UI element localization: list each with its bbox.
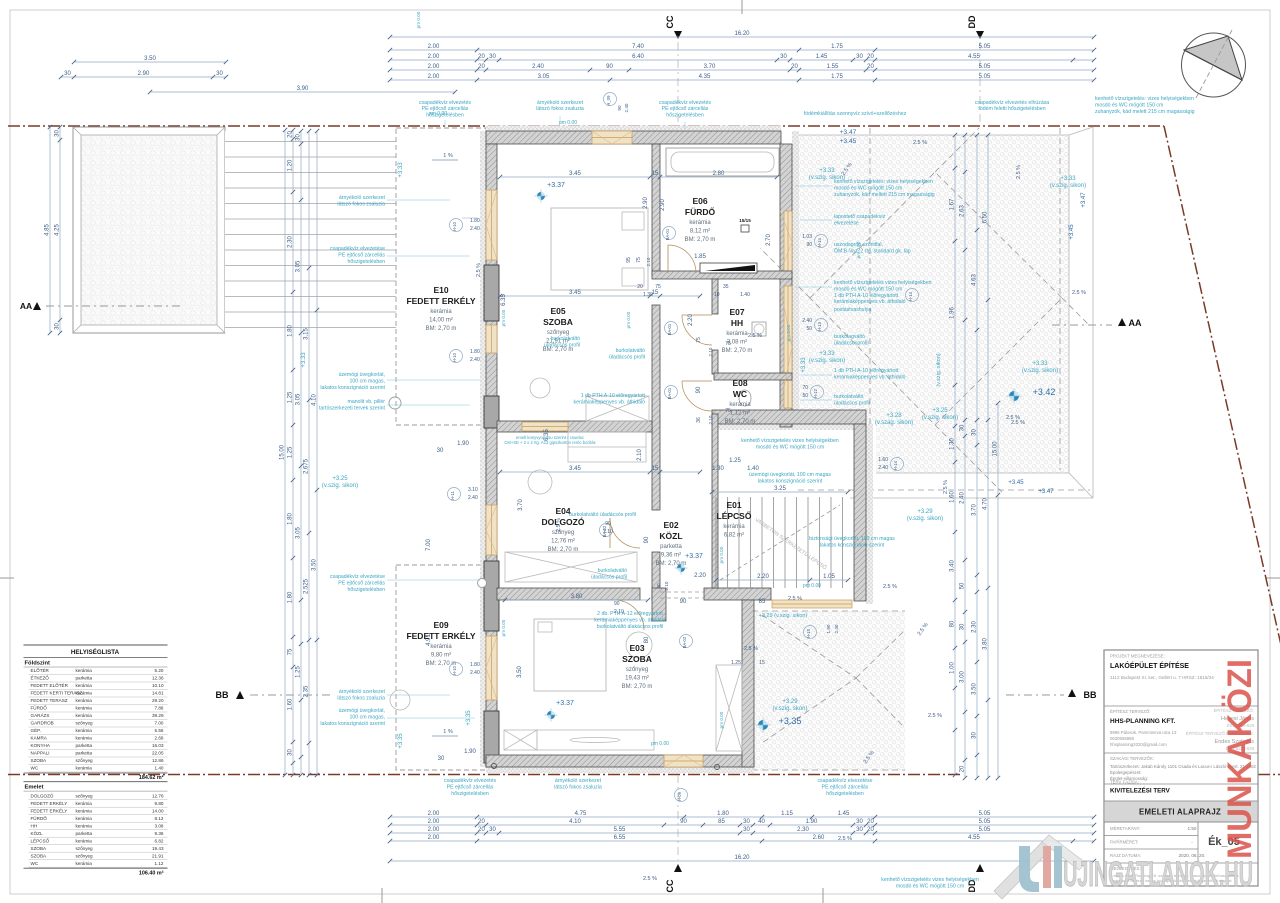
roof parapet outline bbox=[799, 127, 1093, 498]
svg-text:12.76: 12.76 bbox=[152, 793, 164, 798]
bottom exterior wall E03 bbox=[486, 755, 754, 767]
svg-text:2.20: 2.20 bbox=[688, 314, 694, 326]
svg-text:Földszint: Földszint bbox=[25, 661, 51, 667]
svg-text:6.35: 6.35 bbox=[501, 294, 507, 306]
interior dimension rows bbox=[498, 171, 779, 179]
svg-text:8996 Pálosok, Pammineva utca 1: 8996 Pálosok, Pammineva utca 13 bbox=[1110, 730, 1177, 735]
svg-text:kenhető vízszigetelés vizes he: kenhető vízszigetelés vizes helyiségekbe… bbox=[834, 280, 932, 286]
svg-text:FEDETT ELŐTÉR: FEDETT ELŐTÉR bbox=[31, 682, 69, 688]
svg-text:2.00: 2.00 bbox=[428, 819, 440, 825]
svg-text:SZOBA: SZOBA bbox=[31, 846, 48, 851]
svg-text:MUNKAKÖZI: MUNKAKÖZI bbox=[1221, 659, 1259, 859]
stairs treads E01 bbox=[716, 497, 843, 588]
left vertical dimension chain bbox=[280, 128, 288, 777]
svg-text:kerámia: kerámia bbox=[723, 524, 745, 530]
svg-text:5.55: 5.55 bbox=[614, 827, 626, 833]
svg-text:üladácsos profil: üladácsos profil bbox=[834, 401, 870, 407]
svg-text:2.10: 2.10 bbox=[708, 347, 713, 356]
svg-text:(v.szig. sikon): (v.szig. sikon) bbox=[936, 353, 942, 386]
svg-text:15.00: 15.00 bbox=[993, 441, 999, 457]
svg-text:BA-01: BA-01 bbox=[667, 387, 672, 399]
svg-text:KÖZL: KÖZL bbox=[659, 531, 682, 541]
svg-text:FEDETT TERASZ: FEDETT TERASZ bbox=[31, 698, 68, 703]
svg-text:FEDETT ERKÉLY: FEDETT ERKÉLY bbox=[31, 807, 68, 813]
svg-text:6.55: 6.55 bbox=[614, 835, 626, 841]
pier left wall low bbox=[484, 711, 499, 763]
page edge tick top bbox=[741, 0, 743, 14]
svg-text:106.40 m²: 106.40 m² bbox=[139, 870, 164, 876]
svg-text:20: 20 bbox=[288, 131, 294, 138]
svg-text:1.80: 1.80 bbox=[470, 662, 480, 668]
bed E03 bbox=[534, 619, 606, 691]
svg-text:csapadékvíz elvezetés elhúzása: csapadékvíz elvezetés elhúzása bbox=[975, 100, 1050, 106]
svg-text:1.03: 1.03 bbox=[802, 234, 812, 240]
svg-text:UJINGATLANOK.HU: UJINGATLANOK.HU bbox=[1063, 855, 1253, 894]
svg-text:75: 75 bbox=[725, 408, 731, 414]
wardrobe E03 right bbox=[716, 665, 742, 751]
svg-text:15: 15 bbox=[652, 171, 659, 177]
svg-text:15: 15 bbox=[759, 660, 765, 666]
svg-text:PE ejtőcső zárcellás: PE ejtőcső zárcellás bbox=[447, 785, 494, 791]
svg-text:2.00: 2.00 bbox=[428, 44, 440, 50]
svg-text:mosdó és WC mögött 150 cm: mosdó és WC mögött 150 cm bbox=[834, 185, 902, 191]
svg-text:E06: E06 bbox=[692, 196, 707, 206]
property boundary top (red dash-dot) bbox=[8, 125, 1164, 127]
svg-text:3.10: 3.10 bbox=[468, 487, 478, 493]
top dims row 3 bbox=[388, 54, 1096, 62]
svg-text:5.05: 5.05 bbox=[979, 74, 991, 80]
svg-text:mosdó és WC mögött 150 cm: mosdó és WC mögött 150 cm bbox=[896, 884, 964, 890]
svg-text:ÖM:B-Vaz, 2 rtg. standard gk.: ÖM:B-Vaz, 2 rtg. standard gk. lap bbox=[834, 248, 911, 255]
svg-text:burkolatváltó álakácsos profil: burkolatváltó álakácsos profil bbox=[597, 624, 664, 630]
svg-text:80: 80 bbox=[950, 620, 956, 627]
svg-text:WC: WC bbox=[733, 389, 747, 399]
room E03 SZOBA bbox=[622, 643, 653, 690]
svg-text:csapadékvíz elvezetés: csapadékvíz elvezetés bbox=[419, 100, 472, 106]
page edge tick right bbox=[1266, 577, 1280, 579]
svg-text:BM: 2,70 m: BM: 2,70 m bbox=[622, 684, 653, 690]
svg-text:kerámiaképpenyes vb. áthidaló: kerámiaképpenyes vb. áthidaló bbox=[834, 299, 906, 305]
property boundary bottom bbox=[8, 774, 960, 776]
top-left dims 3.50 bbox=[72, 56, 228, 64]
top-left dims 3.90 bbox=[148, 86, 457, 94]
svg-text:20: 20 bbox=[867, 54, 874, 60]
svg-text:BM: 2,70 m: BM: 2,70 m bbox=[548, 547, 579, 553]
svg-text:GARDROB: GARDROB bbox=[31, 721, 54, 726]
svg-text:EMELETI ALAPRAJZ: EMELETI ALAPRAJZ bbox=[1139, 808, 1221, 817]
svg-text:KAMRA: KAMRA bbox=[31, 736, 48, 741]
svg-text:PE ejtőcső zárcellás: PE ejtőcső zárcellás bbox=[338, 581, 385, 587]
svg-text:árnyékoló szerkezet: árnyékoló szerkezet bbox=[339, 689, 386, 695]
svg-text:40: 40 bbox=[758, 819, 765, 825]
svg-text:3.45: 3.45 bbox=[569, 290, 581, 296]
desk E04 bbox=[568, 432, 646, 462]
svg-text:2.30: 2.30 bbox=[797, 827, 809, 833]
right exterior wall upper bbox=[780, 144, 792, 427]
top-left dims 2.90 bbox=[59, 71, 228, 79]
svg-text:7.88: 7.88 bbox=[155, 706, 164, 711]
top dims total 16.20 bbox=[388, 31, 1096, 39]
svg-text:2.10: 2.10 bbox=[637, 449, 643, 461]
svg-text:H-14: H-14 bbox=[908, 291, 913, 301]
svg-text:2.5 %: 2.5 % bbox=[1006, 415, 1020, 421]
door E06 swing bbox=[668, 245, 696, 273]
svg-text:1.00: 1.00 bbox=[950, 662, 956, 674]
partition corridor lower bbox=[652, 552, 660, 601]
pillar circle bbox=[389, 397, 401, 409]
svg-text:kerámia: kerámia bbox=[76, 713, 93, 718]
svg-text:KÖZL: KÖZL bbox=[31, 830, 43, 836]
svg-text:2.5 %: 2.5 % bbox=[943, 480, 949, 494]
svg-text:WC: WC bbox=[31, 766, 39, 771]
svg-text:pm 0.00: pm 0.00 bbox=[501, 619, 506, 636]
svg-text:E08: E08 bbox=[732, 378, 747, 388]
svg-text:H-10: H-10 bbox=[452, 665, 457, 675]
svg-text:95: 95 bbox=[626, 257, 632, 263]
svg-text:H-14: H-14 bbox=[817, 237, 822, 247]
svg-text:szőnyeg: szőnyeg bbox=[76, 758, 94, 763]
svg-text:50: 50 bbox=[806, 326, 812, 332]
svg-text:zuhanyzók, kád mellett 215 cm: zuhanyzók, kád mellett 215 cm magasságig bbox=[834, 192, 935, 198]
svg-text:3.40: 3.40 bbox=[950, 560, 956, 572]
balcony E09 dashed outline bbox=[396, 565, 486, 770]
svg-text:parketta: parketta bbox=[660, 544, 682, 550]
svg-text:75: 75 bbox=[655, 284, 661, 290]
corridor right wall upper bbox=[712, 279, 718, 314]
svg-text:30: 30 bbox=[64, 71, 71, 77]
svg-text:FÜRDŐ: FÜRDŐ bbox=[31, 705, 48, 711]
svg-text:mosdó és WC mögött 150 cm: mosdó és WC mögött 150 cm bbox=[1095, 102, 1163, 108]
svg-text:E07: E07 bbox=[729, 307, 744, 317]
svg-text:SZOBA: SZOBA bbox=[622, 654, 652, 664]
svg-text:16.20: 16.20 bbox=[734, 31, 750, 37]
svg-text:Épületgépészet:: Épületgépészet: bbox=[1110, 770, 1142, 775]
room E10 FEDETT ERKÉLY bbox=[406, 285, 475, 332]
svg-text:LÉPCSŐ: LÉPCSŐ bbox=[31, 837, 50, 843]
svg-text:30: 30 bbox=[972, 732, 978, 739]
svg-text:6.40: 6.40 bbox=[632, 54, 644, 60]
svg-text:2.40: 2.40 bbox=[802, 318, 812, 324]
door E08 swing bbox=[682, 381, 712, 411]
svg-text:4.35: 4.35 bbox=[699, 74, 711, 80]
svg-text:burkolatváltó: burkolatváltó bbox=[598, 568, 628, 574]
room E09 FEDETT ERKÉLY bbox=[406, 620, 475, 667]
svg-text:kenhető vízszigetelés vizes he: kenhető vízszigetelés vizes helyiségekbe… bbox=[741, 438, 839, 444]
svg-text:2.40: 2.40 bbox=[624, 103, 629, 112]
svg-text:1.96: 1.96 bbox=[950, 307, 956, 319]
svg-text:árnyékoló szerkezet: árnyékoló szerkezet bbox=[537, 100, 584, 106]
svg-text:20: 20 bbox=[478, 54, 485, 60]
svg-text:4.10: 4.10 bbox=[569, 819, 581, 825]
svg-text:30: 30 bbox=[960, 623, 966, 630]
svg-text:lakatos konszignáció szerint: lakatos konszignáció szerint bbox=[320, 721, 385, 727]
svg-text:3.05: 3.05 bbox=[296, 527, 302, 539]
svg-text:HH: HH bbox=[31, 823, 38, 828]
svg-text:2.70: 2.70 bbox=[766, 234, 772, 246]
bottom dims total bbox=[388, 855, 1096, 863]
svg-text:pm 0.00: pm 0.00 bbox=[803, 583, 821, 589]
svg-text:30: 30 bbox=[437, 448, 444, 454]
svg-text:3.15: 3.15 bbox=[304, 328, 310, 340]
svg-text:1.60: 1.60 bbox=[878, 457, 888, 463]
svg-text:3.50: 3.50 bbox=[144, 56, 156, 62]
svg-text:üzemögi üvegkorlát, 100 cm mag: üzemögi üvegkorlát, 100 cm magas bbox=[749, 472, 831, 478]
window right wall E07/E08 bbox=[784, 286, 792, 408]
svg-text:10.10: 10.10 bbox=[152, 683, 164, 688]
svg-text:30: 30 bbox=[743, 819, 750, 825]
svg-text:látszó fokos zsaluzia: látszó fokos zsaluzia bbox=[536, 106, 584, 112]
svg-text:5.05: 5.05 bbox=[979, 811, 991, 817]
svg-text:2.5 %: 2.5 % bbox=[744, 646, 758, 652]
svg-text:ÉPÍTÉSZ TERVEZŐ:: ÉPÍTÉSZ TERVEZŐ: bbox=[1110, 709, 1150, 714]
svg-text:burkolatváltó: burkolatváltó bbox=[551, 336, 581, 342]
svg-text:üzemögi üvegkorlát,: üzemögi üvegkorlát, bbox=[339, 708, 385, 714]
svg-text:20: 20 bbox=[478, 819, 485, 825]
svg-text:80: 80 bbox=[644, 636, 650, 643]
window bottom wall bbox=[664, 755, 703, 767]
svg-text:H-12: H-12 bbox=[813, 388, 818, 398]
svg-text:BB: BB bbox=[216, 690, 229, 700]
svg-text:(v.szag. sikon): (v.szag. sikon) bbox=[875, 420, 913, 426]
svg-text:90: 90 bbox=[806, 242, 812, 248]
partition E05|E04 bbox=[497, 421, 652, 432]
svg-text:75: 75 bbox=[288, 648, 294, 655]
svg-text:CM+SE + 2 x 2 rtg. A13 gipszka: CM+SE + 2 x 2 rtg. A13 gipszkarton reréc… bbox=[504, 440, 595, 445]
svg-text:+3.47: +3.47 bbox=[840, 129, 857, 136]
svg-text:3.00: 3.00 bbox=[960, 671, 966, 683]
svg-text:BM: 2,70 m: BM: 2,70 m bbox=[722, 348, 753, 354]
svg-text:70: 70 bbox=[802, 385, 808, 391]
svg-text:1.90: 1.90 bbox=[826, 624, 831, 633]
svg-text:pm 0.00: pm 0.00 bbox=[786, 324, 791, 341]
svg-text:üzemögi üvegkorlát,: üzemögi üvegkorlát, bbox=[339, 372, 385, 378]
dresser E03 bbox=[537, 730, 654, 750]
svg-text:kerámia: kerámia bbox=[76, 683, 93, 688]
corridor right wall lower bbox=[712, 414, 718, 588]
svg-text:(v.szig. sikon): (v.szig. sikon) bbox=[907, 516, 943, 522]
svg-text:H-10: H-10 bbox=[452, 352, 457, 362]
level marks bbox=[547, 182, 565, 189]
stairs up arrow dashed bbox=[720, 505, 840, 580]
stairs right wall bbox=[854, 424, 866, 601]
svg-text:30: 30 bbox=[288, 749, 294, 756]
washbasin counter E06 bbox=[700, 263, 757, 273]
bottom dims row 2 bbox=[388, 819, 1096, 827]
top dims row 5 bbox=[388, 74, 1096, 82]
svg-text:2 db. PTH A-12 előregyártott: 2 db. PTH A-12 előregyártott bbox=[597, 611, 663, 617]
svg-text:kerámia: kerámia bbox=[76, 823, 93, 828]
svg-text:burkolatváltó: burkolatváltó bbox=[834, 394, 864, 400]
svg-text:E01: E01 bbox=[726, 500, 741, 510]
svg-text:+3.35: +3.35 bbox=[398, 733, 404, 749]
right vertical dimension chain bbox=[950, 133, 958, 777]
svg-text:pm 0.00: pm 0.00 bbox=[429, 111, 447, 117]
svg-text:3.50: 3.50 bbox=[972, 683, 978, 695]
svg-text:2.5 %: 2.5 % bbox=[1016, 165, 1022, 179]
svg-text:zuhanyzók, kád melett 215 cm m: zuhanyzók, kád melett 215 cm magasságig bbox=[1095, 109, 1195, 115]
svg-text:KONYHA: KONYHA bbox=[31, 743, 51, 748]
svg-text:39.29: 39.29 bbox=[152, 713, 164, 718]
svg-text:5.05: 5.05 bbox=[979, 819, 991, 825]
BB marker right bbox=[1006, 694, 1064, 696]
svg-text:9,36 m²: 9,36 m² bbox=[661, 553, 681, 559]
svg-text:3.05: 3.05 bbox=[296, 393, 302, 405]
svg-text:4.55: 4.55 bbox=[968, 54, 980, 60]
svg-text:+3.37: +3.37 bbox=[556, 700, 574, 707]
svg-text:3.50: 3.50 bbox=[517, 666, 523, 678]
svg-text:1.80: 1.80 bbox=[288, 513, 294, 525]
svg-text:+3.37: +3.37 bbox=[685, 553, 703, 560]
teal annotations interior bbox=[609, 348, 645, 361]
svg-text:90: 90 bbox=[605, 521, 611, 527]
svg-text:HHS-PLANNING KFT.: HHS-PLANNING KFT. bbox=[1110, 718, 1176, 725]
svg-text:kerámia: kerámia bbox=[76, 698, 93, 703]
svg-text:(v.szig. sikon): (v.szig. sikon) bbox=[809, 358, 845, 364]
svg-text:2.10: 2.10 bbox=[708, 415, 713, 424]
svg-text:GARÁZS: GARÁZS bbox=[31, 712, 50, 718]
svg-text:20: 20 bbox=[478, 64, 485, 70]
svg-text:kerámia: kerámia bbox=[76, 838, 93, 843]
svg-text:+3.25: +3.25 bbox=[932, 408, 948, 414]
svg-text:pm 0.00: pm 0.00 bbox=[856, 241, 861, 258]
svg-text:16.20: 16.20 bbox=[734, 855, 750, 861]
teal annotations top row bbox=[536, 100, 584, 112]
svg-text:3.90: 3.90 bbox=[297, 86, 309, 92]
svg-text:+3.25: +3.25 bbox=[332, 476, 348, 482]
annotation leader lines bbox=[387, 116, 832, 718]
svg-text:2.90: 2.90 bbox=[643, 197, 649, 209]
svg-text:1.45: 1.45 bbox=[838, 811, 850, 817]
svg-text:mosdó és WC mögött 150 cm: mosdó és WC mögött 150 cm bbox=[756, 444, 824, 450]
terrace (pool deck) top-left bbox=[73, 127, 225, 333]
svg-text:4.63: 4.63 bbox=[972, 274, 978, 286]
insulation strip bottom wall bbox=[486, 767, 754, 773]
svg-text:90: 90 bbox=[680, 819, 687, 825]
svg-text:pm 0.00: pm 0.00 bbox=[559, 120, 577, 126]
svg-text:szőnyeg: szőnyeg bbox=[76, 793, 94, 798]
svg-text:ELŐTÉR: ELŐTÉR bbox=[31, 667, 50, 673]
svg-text:4.75: 4.75 bbox=[575, 811, 587, 817]
svg-text:4.25: 4.25 bbox=[55, 224, 61, 236]
page edge tick left bbox=[0, 577, 14, 579]
svg-text:BB: BB bbox=[1084, 690, 1097, 700]
svg-text:1.30: 1.30 bbox=[712, 466, 724, 472]
svg-text:PE ejtőcső zárcellás: PE ejtőcső zárcellás bbox=[822, 785, 869, 791]
room E05 SZOBA bbox=[543, 306, 574, 353]
svg-text:parketta: parketta bbox=[76, 743, 93, 748]
svg-text:parketta: parketta bbox=[76, 831, 93, 836]
svg-text:parketta: parketta bbox=[76, 751, 93, 756]
svg-text:burkolatváltó: burkolatváltó bbox=[616, 348, 646, 354]
svg-text:KIVITELEZÉSI TERV: KIVITELEZÉSI TERV bbox=[1110, 787, 1171, 795]
svg-text:90: 90 bbox=[617, 105, 622, 111]
svg-text:35: 35 bbox=[723, 284, 729, 290]
svg-text:2.00: 2.00 bbox=[428, 827, 440, 833]
balcony E10 dashed outline bbox=[396, 128, 486, 425]
svg-text:WC: WC bbox=[31, 861, 39, 866]
svg-text:elvezetése: elvezetése bbox=[834, 221, 859, 227]
svg-text:2.60: 2.60 bbox=[813, 835, 825, 841]
svg-text:7.40: 7.40 bbox=[632, 44, 644, 50]
svg-text:50: 50 bbox=[802, 393, 808, 399]
svg-text:30: 30 bbox=[296, 134, 302, 141]
svg-text:LÉPCSŐ: LÉPCSŐ bbox=[717, 510, 752, 521]
svg-text:kerámia: kerámia bbox=[76, 766, 93, 771]
svg-text:50: 50 bbox=[960, 582, 966, 589]
svg-text:CC: CC bbox=[665, 15, 675, 28]
svg-text:2.40: 2.40 bbox=[532, 64, 544, 70]
svg-text:H-09: H-09 bbox=[677, 791, 682, 801]
svg-text:85: 85 bbox=[759, 599, 766, 605]
svg-text:2.90: 2.90 bbox=[660, 199, 666, 211]
svg-text:1.80: 1.80 bbox=[288, 325, 294, 337]
svg-text:kerámiaképpenyes vb. áthidaló: kerámiaképpenyes vb. áthidaló bbox=[834, 375, 906, 381]
svg-text:E05: E05 bbox=[550, 306, 565, 316]
svg-text:H-13: H-13 bbox=[817, 321, 822, 331]
svg-text:2.20: 2.20 bbox=[694, 573, 706, 579]
corridor stub wall bbox=[652, 588, 666, 621]
svg-text:30: 30 bbox=[856, 819, 863, 825]
svg-text:födémkiállítás szennyvíz szívó: födémkiállítás szennyvíz szívó+szellőzés… bbox=[804, 111, 907, 117]
svg-text:29.20: 29.20 bbox=[152, 698, 164, 703]
svg-text:szőnyeg: szőnyeg bbox=[626, 667, 648, 673]
svg-text:1:50: 1:50 bbox=[1188, 826, 1197, 831]
pier left wall E05 low bbox=[484, 396, 499, 428]
svg-text:3.70: 3.70 bbox=[518, 499, 524, 511]
svg-text:90: 90 bbox=[644, 536, 650, 543]
svg-text:+3.45: +3.45 bbox=[1069, 224, 1075, 240]
svg-text:pm 0.00: pm 0.00 bbox=[651, 741, 669, 747]
svg-text:14.81: 14.81 bbox=[152, 691, 164, 696]
svg-text:2.5 %: 2.5 % bbox=[788, 596, 802, 602]
svg-text:kerámia: kerámia bbox=[76, 816, 93, 821]
svg-text:100 cm magas,: 100 cm magas, bbox=[350, 715, 385, 721]
svg-text:5.05: 5.05 bbox=[979, 44, 991, 50]
window left wall E03 bbox=[486, 636, 497, 700]
svg-text:20: 20 bbox=[867, 64, 874, 70]
flat roof area right (stipple) bbox=[799, 135, 1069, 424]
svg-text:DD: DD bbox=[967, 15, 977, 28]
insulation strip wc bottom bbox=[712, 424, 866, 430]
svg-text:75: 75 bbox=[725, 341, 731, 347]
svg-text:AA: AA bbox=[1129, 318, 1142, 328]
svg-text:födém feletti hőszigetelésben: födém feletti hőszigetelésben bbox=[978, 106, 1045, 112]
svg-text:E10: E10 bbox=[433, 285, 448, 295]
svg-text:árnyékoló szerkezet: árnyékoló szerkezet bbox=[339, 195, 386, 201]
svg-text:1.25: 1.25 bbox=[296, 666, 302, 678]
svg-text:lakatos konszignáció szerint: lakatos konszignáció szerint bbox=[758, 479, 823, 485]
window in partition E05|E04 bbox=[522, 422, 568, 431]
svg-text:+3.45: +3.45 bbox=[840, 138, 857, 145]
drain dots bottom wall bbox=[492, 764, 497, 769]
svg-text:pm 0.00: pm 0.00 bbox=[719, 711, 724, 728]
pillar circle 2 bbox=[478, 579, 487, 588]
title block bbox=[1104, 650, 1258, 886]
svg-text:19.43: 19.43 bbox=[152, 846, 164, 851]
window in top wall bbox=[592, 131, 632, 144]
svg-text:6,82 m²: 6,82 m² bbox=[724, 533, 744, 539]
svg-text:SZAKÁGI TERVEZŐK:: SZAKÁGI TERVEZŐK: bbox=[1110, 756, 1154, 761]
svg-text:H-15: H-15 bbox=[806, 628, 811, 638]
svg-text:20: 20 bbox=[960, 765, 966, 772]
svg-text:3.70: 3.70 bbox=[704, 64, 716, 70]
svg-text:(v.szig. sikon): (v.szig. sikon) bbox=[1050, 183, 1086, 189]
svg-text:1.25: 1.25 bbox=[729, 458, 741, 464]
svg-text:2.40: 2.40 bbox=[470, 357, 480, 363]
svg-text:pm 0.00: pm 0.00 bbox=[501, 309, 506, 326]
svg-text:14,00 m²: 14,00 m² bbox=[429, 318, 453, 324]
teal annotations left column bbox=[419, 100, 472, 118]
